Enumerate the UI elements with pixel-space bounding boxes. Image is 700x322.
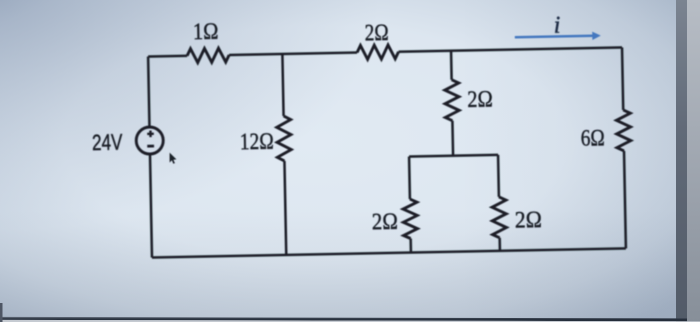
resistor R3 12ohm	[277, 116, 292, 161]
mouse cursor	[170, 153, 177, 164]
svg-text:6Ω: 6Ω	[581, 125, 605, 150]
right outer strip	[687, 0, 700, 322]
svg-text:1Ω: 1Ω	[193, 19, 219, 44]
svg-text:i: i	[553, 13, 560, 39]
wire sub-right lower	[498, 238, 501, 251]
wire 12ohm branch lower	[284, 161, 286, 255]
svg-text:2Ω: 2Ω	[515, 207, 542, 233]
wire right lower	[624, 151, 626, 248]
svg-text:2Ω: 2Ω	[467, 86, 493, 111]
wire bar horizontal	[409, 155, 498, 157]
wire left lower	[150, 154, 152, 257]
minus terminal	[147, 145, 154, 148]
resistor R1 1ohm	[187, 48, 229, 63]
wire middle branch upper	[450, 51, 453, 80]
svg-text:24V: 24V	[92, 130, 123, 156]
svg-text:12Ω: 12Ω	[240, 129, 274, 155]
resistor R6 6ohm	[616, 110, 631, 151]
right dark band	[676, 0, 687, 322]
bottom taskbar	[0, 317, 687, 321]
wire bottom	[152, 248, 626, 257]
current arrow i	[515, 31, 601, 41]
left edge sliver	[0, 303, 3, 322]
wire sub-right upper	[497, 155, 500, 197]
wire 12ohm branch upper	[282, 54, 283, 116]
wire right upper	[622, 47, 623, 109]
svg-text:2Ω: 2Ω	[364, 20, 388, 45]
plus terminal	[147, 130, 154, 137]
wire sub-left upper	[408, 157, 411, 199]
wire top-middle segment	[229, 53, 357, 55]
wire sub-left lower	[409, 239, 412, 253]
wire middle branch lower	[451, 121, 454, 156]
resistor R5b 2ohm bottom-right	[492, 197, 507, 238]
wire left upper	[148, 57, 149, 127]
resistor R5a 2ohm bottom-left	[403, 199, 418, 239]
svg-text:2Ω: 2Ω	[372, 209, 398, 234]
voltage source 24V	[136, 127, 164, 155]
wire top-right segment	[399, 47, 622, 51]
resistor R4 2ohm middle	[445, 80, 460, 121]
wire top-left segment	[148, 55, 187, 58]
resistor R2 2ohm top	[357, 45, 399, 60]
